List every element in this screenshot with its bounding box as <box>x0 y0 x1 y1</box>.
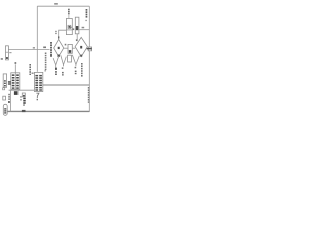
small box top-left of pill <box>3 96 6 100</box>
wire: left riser <box>36 6 38 72</box>
chute V-c <box>72 55 79 65</box>
vessel column K2 <box>75 17 79 34</box>
box below pump <box>68 55 72 62</box>
label under V-a <box>55 71 57 75</box>
tiny label top-left <box>1 58 3 60</box>
label under V-b <box>62 72 64 76</box>
label under V-c <box>75 71 77 75</box>
blob at D2 bottom <box>80 55 82 57</box>
chute V-a under D1 <box>53 56 59 65</box>
small label column x30 <box>29 64 31 75</box>
drop wire V-b <box>63 65 65 67</box>
cyclone D2 <box>75 37 87 56</box>
feed box far left <box>6 46 9 60</box>
label tick on top pipe <box>54 3 58 5</box>
label column below manifold left <box>8 94 10 103</box>
wire: lower-left manifold <box>9 89 35 91</box>
wire: mid long pipe <box>43 84 89 86</box>
faint wire at x18 <box>17 90 19 95</box>
tick above wire <box>65 44 67 46</box>
curl label below B2 <box>36 93 39 98</box>
gray dashes left of label col <box>20 96 22 100</box>
drop wire V-a <box>55 65 57 67</box>
box below manifold 2 <box>22 93 25 97</box>
drop wire V-c <box>75 64 77 66</box>
cyclone D1 <box>54 39 64 56</box>
tick on stub <box>15 62 17 64</box>
wire: bottom pipe <box>7 110 89 112</box>
wire: right pipe (frame) <box>88 6 90 112</box>
label right of K2 <box>85 9 87 21</box>
pump box between cyclones <box>68 44 72 53</box>
wire: K1 to cyclone D1 <box>59 30 67 39</box>
tiny label left of B2 top <box>32 73 34 74</box>
tick under V-c <box>75 67 77 69</box>
tiny box under narrow box <box>3 88 5 90</box>
stub wire into B1 <box>14 64 16 73</box>
lead line from K1 label <box>68 15 70 19</box>
mark in pump box <box>69 50 72 53</box>
label column x82 <box>81 63 83 77</box>
blob at D1 bottom <box>58 55 60 57</box>
divider in feed box <box>6 51 9 53</box>
long label column x45 <box>45 53 47 72</box>
marks in narrow box <box>4 80 6 86</box>
vessel column K1 <box>66 19 72 35</box>
wire: K2 outlet to right pipe <box>79 29 89 31</box>
tank box B2 (right cluster) <box>34 72 42 91</box>
wire: feed line left <box>8 49 49 51</box>
valve mark in K2 <box>76 26 78 30</box>
arrowhead tick near D2 <box>76 39 78 41</box>
text rows in B1 <box>12 74 19 88</box>
blobs between boxes <box>8 81 11 85</box>
outlet box right of D2 <box>88 47 91 51</box>
valve mark in K1 <box>68 25 71 28</box>
wire: K2 down to cyclone D2 <box>76 34 78 42</box>
dark tick under V-a <box>55 68 57 70</box>
ticks above feed line <box>33 47 35 48</box>
label inside D2 <box>80 46 82 49</box>
arrowhead on D1 feed <box>58 36 59 38</box>
wire: top pipe <box>37 5 89 7</box>
dark box below manifold <box>14 91 18 95</box>
label column left of D1 <box>50 42 52 57</box>
label above K1 <box>68 9 70 15</box>
label above K2 outlet pipe <box>82 27 85 29</box>
divider in B1 <box>14 73 16 90</box>
wire: drop to bottom pipe <box>10 100 12 111</box>
tick under V-b <box>62 67 64 69</box>
pill vessel bottom-left <box>3 104 7 115</box>
tick below curl <box>37 99 38 101</box>
mark in box 2 <box>23 95 25 97</box>
label column along right frame lower <box>88 87 90 103</box>
label inside D1 <box>58 47 60 49</box>
wire: D1 to pump <box>64 47 68 49</box>
blob on bottom pipe <box>22 110 26 112</box>
wire: pump to D2 <box>72 47 75 49</box>
dark label column near bottom pipe <box>23 98 26 106</box>
narrow box left of B1 <box>3 74 6 87</box>
tank box B1 (left cluster) <box>11 73 20 90</box>
marks in pill <box>4 108 6 113</box>
label left of K2 <box>70 27 74 31</box>
label left of D1 feed wire <box>55 31 57 34</box>
mark in feed box <box>6 57 8 59</box>
chute V-b <box>61 55 67 64</box>
text rows in B2 <box>35 75 42 91</box>
dark outlet bar through frame <box>87 48 92 50</box>
dash right of feed box <box>9 52 11 53</box>
wire: drop from manifold <box>10 90 12 100</box>
